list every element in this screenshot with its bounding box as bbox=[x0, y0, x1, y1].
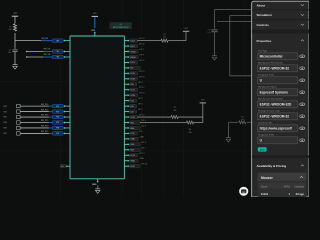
svg-text:Designator Prefix: Designator Prefix bbox=[258, 73, 275, 76]
svg-text:CMD: CMD bbox=[130, 139, 135, 141]
svg-text:P32: P32 bbox=[56, 133, 59, 135]
svg-text:Updated: Updated bbox=[295, 185, 305, 188]
svg-text:Package or Case Code: Package or Case Code bbox=[258, 109, 280, 112]
svg-text:P14: P14 bbox=[56, 106, 59, 108]
svg-text:3V3: 3V3 bbox=[201, 100, 204, 102]
svg-text:SW5: SW5 bbox=[3, 122, 7, 124]
svg-text:SW3: SW3 bbox=[3, 111, 7, 113]
svg-text:P26: P26 bbox=[56, 117, 59, 119]
svg-text:SW4: SW4 bbox=[3, 117, 7, 119]
svg-text:EDIT: EDIT bbox=[260, 150, 266, 152]
svg-text:3d ago: 3d ago bbox=[296, 192, 305, 196]
svg-text:P27: P27 bbox=[56, 111, 59, 113]
svg-text:10k: 10k bbox=[241, 119, 244, 121]
svg-text:SW_P26: SW_P26 bbox=[41, 115, 48, 117]
svg-text:GND: GND bbox=[92, 184, 97, 186]
svg-text:R1: R1 bbox=[9, 26, 11, 28]
svg-text:SW_P14: SW_P14 bbox=[41, 104, 48, 106]
svg-text:3V3: 3V3 bbox=[13, 13, 16, 15]
svg-text:https:∕∕www.espressif: https:∕∕www.espressif bbox=[260, 127, 293, 131]
svg-text:About: About bbox=[257, 3, 266, 7]
svg-text:Manufacturer Name: Manufacturer Name bbox=[258, 85, 277, 88]
svg-text:Microcontroller: Microcontroller bbox=[260, 55, 284, 59]
svg-text:SW_P32: SW_P32 bbox=[41, 131, 48, 133]
svg-text:GP 23: GP 23 bbox=[139, 38, 146, 40]
svg-text:SW_P27: SW_P27 bbox=[41, 109, 48, 111]
svg-text:P33: P33 bbox=[56, 128, 59, 130]
svg-text:SW6: SW6 bbox=[3, 128, 7, 130]
svg-text:SW_P25: SW_P25 bbox=[41, 120, 48, 122]
svg-text:10u: 10u bbox=[8, 52, 11, 54]
svg-text:GP 15: GP 15 bbox=[139, 115, 146, 117]
svg-text:Datasheet URL: Datasheet URL bbox=[258, 121, 273, 124]
svg-text:SW7: SW7 bbox=[3, 133, 7, 135]
svg-text:VP: VP bbox=[57, 51, 59, 53]
svg-text:3V3: 3V3 bbox=[184, 28, 187, 30]
svg-text:ESP32 -WROOM-32D: ESP32 -WROOM-32D bbox=[260, 103, 292, 107]
svg-text:100: 100 bbox=[163, 37, 166, 39]
svg-text:GP 19: GP 19 bbox=[139, 71, 146, 73]
svg-text:Manufacturer Part Number: Manufacturer Part Number bbox=[258, 61, 283, 64]
svg-text:Controls: Controls bbox=[257, 23, 270, 27]
svg-text:U1: U1 bbox=[120, 24, 122, 26]
svg-text:GP 12: GP 12 bbox=[141, 164, 148, 166]
svg-text:ESP32 -WROOM-32: ESP32 -WROOM-32 bbox=[260, 67, 290, 71]
svg-text:GP 21: GP 21 bbox=[139, 60, 146, 62]
svg-text:10k: 10k bbox=[173, 110, 176, 112]
svg-text:Properties: Properties bbox=[257, 39, 272, 43]
svg-text:Designator Prefix: Designator Prefix bbox=[258, 133, 275, 136]
svg-text:Mouser: Mouser bbox=[261, 176, 273, 180]
svg-text:R4: R4 bbox=[189, 129, 191, 131]
svg-text:ESP32 -WROOM-32: ESP32 -WROOM-32 bbox=[260, 115, 290, 119]
svg-text:Part Type: Part Type bbox=[258, 49, 268, 52]
svg-text:GND: GND bbox=[130, 161, 135, 163]
svg-text:GP 17: GP 17 bbox=[139, 87, 146, 89]
svg-text:GP 13: GP 13 bbox=[139, 153, 146, 155]
svg-text:MOQ: MOQ bbox=[284, 185, 290, 188]
svg-text:3V3: 3V3 bbox=[93, 13, 96, 15]
svg-text:R2: R2 bbox=[174, 107, 176, 109]
svg-text:Availability & Pricing: Availability & Pricing bbox=[257, 164, 287, 168]
svg-text:GP 22: GP 22 bbox=[139, 44, 146, 46]
svg-text:GND: GND bbox=[139, 158, 144, 160]
svg-text:Stock: Stock bbox=[261, 185, 268, 188]
svg-text:TXD0: TXD0 bbox=[130, 51, 136, 53]
svg-text:GP 16: GP 16 bbox=[139, 93, 146, 95]
svg-text:SW_P33: SW_P33 bbox=[41, 126, 48, 128]
svg-text:10k: 10k bbox=[188, 132, 191, 134]
svg-text:CMD: CMD bbox=[139, 136, 144, 138]
svg-text:10k: 10k bbox=[8, 29, 11, 31]
svg-text:10u: 10u bbox=[207, 32, 210, 34]
svg-text:CLK: CLK bbox=[130, 133, 135, 135]
svg-text:SW_VN: SW_VN bbox=[44, 54, 51, 56]
svg-text:Simulation: Simulation bbox=[257, 13, 273, 17]
svg-text:R3: R3 bbox=[163, 34, 165, 36]
svg-text:SW_VP: SW_VP bbox=[44, 49, 51, 51]
svg-text:IO0: IO0 bbox=[61, 166, 64, 168]
svg-text:P25: P25 bbox=[56, 122, 59, 124]
svg-text:Espressif Systems: Espressif Systems bbox=[260, 91, 289, 95]
svg-text:SW2: SW2 bbox=[3, 106, 7, 108]
svg-text:CLK: CLK bbox=[139, 131, 144, 133]
svg-text:RXD0: RXD0 bbox=[130, 57, 136, 59]
svg-text:Manufacturer Part Number: Manufacturer Part Number bbox=[258, 97, 283, 100]
svg-text:SW_EN: SW_EN bbox=[41, 38, 48, 40]
svg-text:11144: 11144 bbox=[261, 192, 268, 196]
svg-text:GP 18: GP 18 bbox=[139, 76, 146, 78]
svg-text:ESP32-WROOM-32: ESP32-WROOM-32 bbox=[113, 27, 129, 29]
